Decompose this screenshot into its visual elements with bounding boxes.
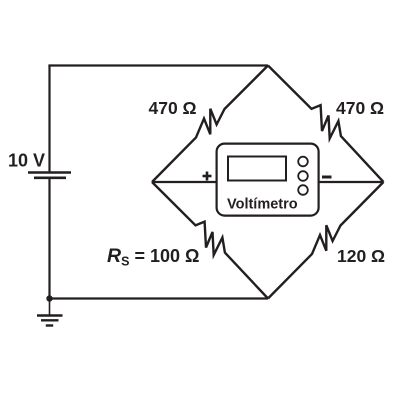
svg-text:470 Ω: 470 Ω	[336, 98, 384, 118]
node junction dot	[46, 295, 52, 301]
resistor R1 470 ohm (top-left arm)	[152, 66, 268, 183]
voltmeter display screen	[228, 157, 286, 181]
wire: bottom horizontal from junction to bridge bottom node	[50, 297, 269, 299]
voltmeter button 3	[298, 185, 308, 195]
svg-text:Voltímetro: Voltímetro	[227, 197, 298, 213]
resistor R3 RS=100 ohm (bottom-left arm)	[152, 182, 268, 299]
voltmeter U1 body	[217, 144, 319, 216]
svg-text:10 V: 10 V	[8, 151, 45, 171]
resistor R4 120 ohm (bottom-right arm)	[268, 182, 384, 299]
wire: voltmeter to right node	[318, 181, 384, 183]
svg-text:120 Ω: 120 Ω	[337, 246, 385, 266]
voltmeter button 2	[298, 171, 308, 181]
battery V1 10 V	[28, 173, 71, 178]
wire: left vertical from top corner to battery top plate	[48, 66, 50, 172]
voltmeter button 1	[298, 157, 308, 167]
svg-text:RS = 100 Ω: RS = 100 Ω	[107, 245, 199, 269]
wire: left node to voltmeter	[152, 181, 217, 183]
resistor R2 470 ohm (top-right arm)	[268, 66, 384, 183]
label + (plus terminal)	[203, 172, 212, 181]
wire: left vertical from battery bottom plate to bottom junction	[48, 178, 50, 299]
wire: top horizontal from left corner to bridge top node	[48, 64, 268, 66]
label - (minus terminal)	[322, 176, 332, 179]
svg-text:470 Ω: 470 Ω	[149, 98, 197, 118]
ground	[37, 299, 63, 326]
